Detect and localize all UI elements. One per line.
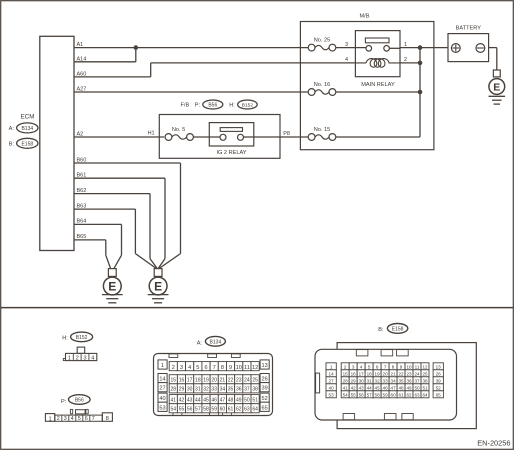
svg-text:E158: E158 bbox=[21, 141, 33, 147]
svg-text:20: 20 bbox=[383, 371, 389, 376]
svg-text:27: 27 bbox=[159, 386, 165, 392]
svg-text:65: 65 bbox=[436, 392, 442, 397]
pin label A2 bbox=[77, 131, 84, 137]
svg-text:39: 39 bbox=[261, 386, 267, 392]
fuse box F/B bbox=[159, 115, 280, 159]
svg-text:2: 2 bbox=[57, 416, 60, 422]
svg-text:P:: P: bbox=[61, 399, 67, 405]
svg-text:49: 49 bbox=[236, 398, 242, 404]
svg-text:15: 15 bbox=[171, 378, 177, 384]
wire main relay pin 1 to battery bbox=[400, 47, 448, 49]
wire B60 to ground bbox=[74, 163, 181, 269]
svg-text:4: 4 bbox=[345, 57, 348, 63]
svg-text:7: 7 bbox=[384, 364, 387, 369]
svg-text:P:: P: bbox=[195, 103, 201, 109]
svg-text:2: 2 bbox=[404, 57, 407, 63]
svg-text:16: 16 bbox=[179, 378, 185, 384]
wire bus node column bbox=[419, 48, 421, 137]
wire A1 bbox=[74, 47, 308, 49]
junction A1/A14 bbox=[134, 45, 139, 50]
svg-text:32: 32 bbox=[203, 387, 209, 393]
svg-text:29: 29 bbox=[179, 387, 185, 393]
svg-text:No. 16: No. 16 bbox=[314, 82, 330, 88]
pin label B62 bbox=[77, 188, 87, 194]
svg-text:61: 61 bbox=[399, 392, 405, 397]
pin label B64 bbox=[77, 219, 87, 225]
fuse box M/B bbox=[300, 22, 434, 150]
pin label H1 bbox=[148, 131, 155, 137]
svg-text:MAIN RELAY: MAIN RELAY bbox=[361, 82, 395, 88]
wire B63 to ground bbox=[74, 209, 157, 269]
svg-text:21: 21 bbox=[220, 378, 226, 384]
svg-text:1: 1 bbox=[161, 363, 164, 369]
svg-text:63: 63 bbox=[414, 392, 420, 397]
svg-text:14: 14 bbox=[159, 377, 165, 383]
svg-text:43: 43 bbox=[359, 385, 365, 390]
svg-text:31: 31 bbox=[195, 387, 201, 393]
svg-text:58: 58 bbox=[203, 407, 209, 413]
connector view A: B134 bbox=[154, 336, 273, 415]
svg-text:B56: B56 bbox=[208, 103, 217, 109]
svg-text:34: 34 bbox=[391, 378, 397, 383]
svg-text:26: 26 bbox=[261, 377, 267, 383]
svg-text:55: 55 bbox=[351, 392, 357, 397]
svg-text:23: 23 bbox=[406, 371, 412, 376]
svg-text:4: 4 bbox=[360, 364, 363, 369]
svg-text:13: 13 bbox=[261, 363, 267, 369]
pin label B60 bbox=[77, 157, 87, 163]
fuse No. 25 bbox=[308, 37, 336, 51]
svg-text:14: 14 bbox=[329, 371, 335, 376]
svg-text:BATTERY: BATTERY bbox=[456, 26, 482, 32]
svg-text:48: 48 bbox=[399, 385, 405, 390]
svg-text:H:: H: bbox=[62, 335, 68, 341]
svg-text:B152: B152 bbox=[242, 103, 254, 109]
svg-text:49: 49 bbox=[406, 385, 412, 390]
wire A2 to fuse No. 5 bbox=[74, 136, 164, 138]
svg-text:11: 11 bbox=[244, 365, 250, 371]
svg-text:35: 35 bbox=[228, 387, 234, 393]
svg-text:16: 16 bbox=[351, 371, 357, 376]
junction node battery/pin1 bbox=[418, 45, 423, 50]
ground E (battery) bbox=[489, 70, 506, 104]
svg-text:H1: H1 bbox=[148, 131, 155, 137]
svg-text:1: 1 bbox=[330, 364, 333, 369]
svg-text:44: 44 bbox=[195, 398, 201, 404]
svg-text:36: 36 bbox=[236, 387, 242, 393]
svg-text:5: 5 bbox=[78, 416, 81, 422]
svg-text:5: 5 bbox=[368, 364, 371, 369]
svg-text:38: 38 bbox=[252, 387, 258, 393]
svg-text:3: 3 bbox=[180, 365, 183, 371]
svg-text:22: 22 bbox=[399, 371, 405, 376]
svg-text:37: 37 bbox=[244, 387, 250, 393]
svg-text:4: 4 bbox=[188, 365, 191, 371]
wire A60 to main relay coil bbox=[74, 63, 355, 77]
relay IG 2 RELAY bbox=[209, 123, 254, 156]
connector view H: B152 bbox=[62, 332, 97, 361]
wire fuse No.5 to IG2 relay bbox=[193, 136, 220, 138]
svg-text:52: 52 bbox=[261, 396, 267, 402]
svg-text:E158: E158 bbox=[392, 327, 404, 333]
svg-text:60: 60 bbox=[391, 392, 397, 397]
svg-text:A:: A: bbox=[9, 126, 15, 132]
svg-text:59: 59 bbox=[383, 392, 389, 397]
svg-text:60: 60 bbox=[220, 407, 226, 413]
connector view B: E158 bbox=[315, 324, 476, 429]
svg-text:33: 33 bbox=[211, 387, 217, 393]
svg-text:65: 65 bbox=[261, 405, 267, 411]
svg-text:46: 46 bbox=[211, 398, 217, 404]
svg-text:18: 18 bbox=[367, 371, 373, 376]
wire fuse No.15 to node bbox=[336, 136, 420, 138]
svg-text:9: 9 bbox=[400, 364, 403, 369]
svg-text:47: 47 bbox=[220, 398, 226, 404]
svg-text:2: 2 bbox=[172, 365, 175, 371]
svg-text:1: 1 bbox=[68, 355, 71, 361]
fuse No. 15 bbox=[308, 127, 336, 141]
svg-text:59: 59 bbox=[211, 407, 217, 413]
svg-text:40: 40 bbox=[329, 385, 335, 390]
ground E (ECM B60-B63) bbox=[148, 269, 169, 303]
ground E (ECM B64/B65) bbox=[102, 269, 123, 303]
svg-text:6: 6 bbox=[376, 364, 379, 369]
svg-text:B56: B56 bbox=[75, 398, 84, 404]
pin label A1 bbox=[77, 42, 84, 48]
svg-text:F/B: F/B bbox=[181, 103, 190, 109]
svg-text:E: E bbox=[108, 279, 116, 293]
svg-text:63: 63 bbox=[244, 407, 250, 413]
svg-text:20: 20 bbox=[211, 378, 217, 384]
svg-text:18: 18 bbox=[195, 378, 201, 384]
svg-text:24: 24 bbox=[414, 371, 420, 376]
svg-text:3: 3 bbox=[352, 364, 355, 369]
svg-text:54: 54 bbox=[343, 392, 349, 397]
svg-text:30: 30 bbox=[359, 378, 365, 383]
svg-text:42: 42 bbox=[351, 385, 357, 390]
svg-text:39: 39 bbox=[436, 378, 442, 383]
wire B62 to ground bbox=[74, 194, 157, 269]
svg-text:34: 34 bbox=[220, 387, 226, 393]
svg-text:2: 2 bbox=[76, 355, 79, 361]
svg-text:8: 8 bbox=[221, 365, 224, 371]
svg-text:2: 2 bbox=[344, 364, 347, 369]
wire B65 to ground bbox=[74, 240, 111, 269]
svg-text:19: 19 bbox=[203, 378, 209, 384]
svg-text:55: 55 bbox=[179, 407, 185, 413]
connector ref P: B56 bbox=[195, 100, 223, 109]
svg-text:32: 32 bbox=[375, 378, 381, 383]
svg-text:38: 38 bbox=[422, 378, 428, 383]
pin label A14 bbox=[77, 56, 87, 62]
svg-text:8: 8 bbox=[106, 416, 109, 422]
svg-text:19: 19 bbox=[375, 371, 381, 376]
svg-text:7: 7 bbox=[213, 365, 216, 371]
pin label 1 bbox=[404, 42, 407, 48]
pin label 2 bbox=[404, 57, 407, 63]
svg-text:45: 45 bbox=[375, 385, 381, 390]
svg-text:11: 11 bbox=[415, 364, 420, 369]
svg-text:B:: B: bbox=[378, 327, 384, 333]
relay MAIN RELAY bbox=[355, 31, 400, 88]
wire fuse No.16 to node bbox=[336, 91, 420, 93]
svg-text:4: 4 bbox=[71, 416, 74, 422]
svg-text:56: 56 bbox=[187, 407, 193, 413]
svg-text:45: 45 bbox=[203, 398, 209, 404]
svg-text:31: 31 bbox=[367, 378, 373, 383]
svg-text:52: 52 bbox=[436, 385, 442, 390]
svg-text:22: 22 bbox=[228, 378, 234, 384]
label M/B bbox=[360, 14, 370, 20]
wire battery to ground bbox=[489, 48, 497, 70]
svg-text:12: 12 bbox=[252, 365, 258, 371]
svg-text:47: 47 bbox=[391, 385, 397, 390]
svg-text:6: 6 bbox=[204, 365, 207, 371]
svg-text:9: 9 bbox=[229, 365, 232, 371]
wire IG2 relay to P8 bbox=[243, 136, 308, 138]
pin label P8 bbox=[283, 131, 290, 137]
svg-text:3: 3 bbox=[345, 42, 348, 48]
svg-text:EN-20256: EN-20256 bbox=[477, 439, 510, 448]
svg-text:26: 26 bbox=[436, 371, 442, 376]
junction node fuse16 bbox=[418, 90, 423, 95]
connector ref B: E158 bbox=[9, 138, 38, 148]
svg-text:64: 64 bbox=[422, 392, 428, 397]
svg-text:64: 64 bbox=[252, 407, 258, 413]
svg-text:25: 25 bbox=[252, 378, 258, 384]
svg-text:29: 29 bbox=[351, 378, 357, 383]
figure number EN-20256 bbox=[477, 439, 510, 448]
svg-text:57: 57 bbox=[367, 392, 373, 397]
wire fuse No.25 to main relay pin 3 bbox=[336, 47, 366, 49]
svg-text:56: 56 bbox=[359, 392, 365, 397]
ECM box bbox=[40, 36, 74, 250]
svg-text:17: 17 bbox=[359, 371, 365, 376]
svg-text:37: 37 bbox=[414, 378, 420, 383]
svg-text:1: 1 bbox=[48, 416, 51, 422]
svg-text:54: 54 bbox=[171, 407, 177, 413]
svg-text:21: 21 bbox=[391, 371, 397, 376]
connector ref H: B152 bbox=[229, 100, 257, 109]
svg-text:51: 51 bbox=[252, 398, 258, 404]
pin label B65 bbox=[77, 234, 87, 240]
fuse No. 5 bbox=[165, 127, 193, 141]
connector view P: B56 bbox=[45, 395, 112, 423]
svg-text:17: 17 bbox=[187, 378, 193, 384]
wire A27 bbox=[74, 91, 308, 93]
svg-text:53: 53 bbox=[329, 392, 335, 397]
svg-text:H:: H: bbox=[229, 103, 235, 109]
svg-text:58: 58 bbox=[375, 392, 381, 397]
pin label 4 bbox=[345, 57, 348, 63]
svg-text:7: 7 bbox=[92, 416, 95, 422]
svg-text:13: 13 bbox=[436, 364, 442, 369]
svg-text:A:: A: bbox=[197, 340, 203, 346]
svg-text:50: 50 bbox=[244, 398, 250, 404]
svg-text:B134: B134 bbox=[210, 339, 222, 345]
svg-text:44: 44 bbox=[367, 385, 373, 390]
svg-text:40: 40 bbox=[159, 396, 165, 402]
svg-text:10: 10 bbox=[236, 365, 242, 371]
pin label B61 bbox=[77, 173, 87, 179]
svg-text:27: 27 bbox=[329, 378, 335, 383]
svg-text:IG 2 RELAY: IG 2 RELAY bbox=[216, 150, 246, 156]
pin label A27 bbox=[77, 87, 87, 93]
svg-text:B152: B152 bbox=[76, 335, 88, 341]
fuse No. 16 bbox=[308, 82, 336, 96]
pin label A60 bbox=[77, 71, 87, 77]
svg-text:E: E bbox=[154, 279, 162, 293]
svg-text:30: 30 bbox=[187, 387, 193, 393]
svg-text:28: 28 bbox=[171, 387, 177, 393]
svg-text:No. 15: No. 15 bbox=[314, 127, 330, 133]
svg-text:5: 5 bbox=[196, 365, 199, 371]
svg-text:B134: B134 bbox=[21, 126, 33, 132]
svg-text:6: 6 bbox=[85, 416, 88, 422]
svg-text:15: 15 bbox=[343, 371, 349, 376]
wire A14 bbox=[74, 48, 136, 62]
wire B61 to ground bbox=[74, 178, 165, 268]
wire B64 to ground bbox=[74, 224, 122, 268]
svg-text:1: 1 bbox=[404, 42, 407, 48]
svg-text:57: 57 bbox=[195, 407, 201, 413]
svg-text:3: 3 bbox=[83, 355, 86, 361]
svg-text:E: E bbox=[493, 81, 500, 93]
svg-text:P8: P8 bbox=[283, 131, 290, 137]
svg-text:24: 24 bbox=[244, 378, 250, 384]
pin label B63 bbox=[77, 203, 87, 209]
svg-text:62: 62 bbox=[236, 407, 242, 413]
svg-text:No. 5: No. 5 bbox=[172, 127, 185, 133]
svg-text:35: 35 bbox=[399, 378, 405, 383]
svg-text:ECM: ECM bbox=[21, 113, 35, 120]
svg-text:41: 41 bbox=[343, 385, 349, 390]
svg-text:3: 3 bbox=[64, 416, 67, 422]
svg-text:23: 23 bbox=[236, 378, 242, 384]
svg-text:62: 62 bbox=[406, 392, 412, 397]
svg-text:12: 12 bbox=[422, 364, 428, 369]
svg-text:25: 25 bbox=[422, 371, 428, 376]
label ECM bbox=[21, 113, 35, 120]
svg-text:46: 46 bbox=[383, 385, 389, 390]
svg-text:No. 25: No. 25 bbox=[314, 37, 330, 43]
junction node coil pin2 bbox=[418, 61, 423, 66]
svg-text:36: 36 bbox=[406, 378, 412, 383]
svg-text:51: 51 bbox=[422, 385, 428, 390]
svg-text:41: 41 bbox=[171, 398, 177, 404]
svg-text:10: 10 bbox=[406, 364, 412, 369]
svg-text:48: 48 bbox=[228, 398, 234, 404]
label F/B bbox=[181, 103, 190, 109]
svg-text:B:: B: bbox=[9, 142, 15, 148]
pin label 3 bbox=[345, 42, 348, 48]
battery bbox=[448, 26, 489, 62]
svg-text:33: 33 bbox=[383, 378, 389, 383]
svg-text:43: 43 bbox=[187, 398, 193, 404]
svg-text:50: 50 bbox=[414, 385, 420, 390]
svg-text:61: 61 bbox=[228, 407, 234, 413]
svg-text:8: 8 bbox=[392, 364, 395, 369]
svg-text:53: 53 bbox=[159, 405, 165, 411]
svg-text:42: 42 bbox=[179, 398, 185, 404]
svg-text:28: 28 bbox=[343, 378, 349, 383]
svg-text:M/B: M/B bbox=[360, 14, 370, 20]
wire main relay pin 2 to node bbox=[400, 62, 420, 64]
connector ref A: B134 bbox=[9, 123, 38, 133]
